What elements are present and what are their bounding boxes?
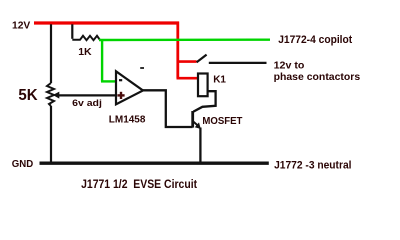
- wire 5K pot bottom to ground bus: [50, 106, 52, 163]
- resistor 1K lead from bus: [71, 24, 73, 39]
- wire from 12V bus down to 5K pot: [50, 24, 52, 83]
- wire relay coil to mosfet drain: [193, 91, 215, 111]
- switch contact wire to contactors: [209, 62, 267, 64]
- wire wiper to op-amp plus input: [57, 94, 116, 96]
- svg-text:1K: 1K: [78, 46, 92, 58]
- svg-text:GND: GND: [12, 159, 33, 170]
- potentiometer 5K body: [47, 83, 54, 106]
- ground bus: [40, 161, 269, 164]
- wire red vertical drop to relay: [176, 22, 179, 79]
- resistor 1K body: [72, 36, 99, 40]
- op-amp plus sign: [117, 92, 124, 99]
- switch arm: [197, 55, 207, 63]
- wire green to op-amp minus input: [101, 80, 116, 82]
- svg-text:J1772 -3 neutral: J1772 -3 neutral: [274, 159, 351, 171]
- svg-text:6v adj: 6v adj: [72, 98, 102, 109]
- transistor emitter diagonal: [193, 122, 197, 126]
- wire green vertical down to op-amp: [101, 39, 103, 81]
- wire red branch to switch: [177, 60, 197, 63]
- wire red branch to relay coil: [177, 77, 199, 80]
- wire green copilot net horizontal: [99, 39, 270, 42]
- wire 12V red bus: [34, 21, 179, 24]
- svg-text:phase contactors: phase contactors: [274, 71, 361, 83]
- svg-text:LM1458: LM1458: [109, 115, 146, 126]
- transistor emitter arrowhead: [195, 122, 201, 129]
- svg-text:12V: 12V: [12, 20, 30, 32]
- wire emitter down to ground: [199, 128, 201, 163]
- svg-text:12v to: 12v to: [274, 60, 305, 72]
- op-amp U1 triangle: [116, 71, 143, 104]
- svg-text:K1: K1: [213, 75, 226, 86]
- relay coil K1: [198, 74, 208, 97]
- stray dash mark: [140, 67, 144, 69]
- svg-text:5K: 5K: [18, 87, 38, 104]
- wiper arrowhead: [53, 92, 60, 99]
- svg-text:J1771 1/2 EVSE Circuit: J1771 1/2 EVSE Circuit: [81, 179, 197, 191]
- op-amp minus sign: [119, 79, 122, 81]
- svg-text:MOSFET: MOSFET: [202, 116, 243, 127]
- svg-text:J1772-4 copilot: J1772-4 copilot: [278, 34, 352, 46]
- wire op-amp output to mosfet gate: [143, 90, 193, 127]
- transistor Q1 bar: [191, 111, 194, 128]
